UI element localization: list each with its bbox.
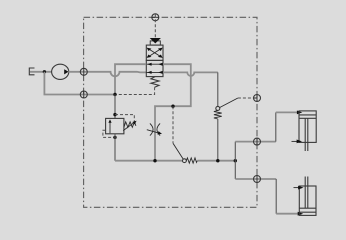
wire (down to governor joint) <box>217 72 219 106</box>
wire (valve upper-right port loop to throttle branch) <box>155 64 191 161</box>
joint J1 (governor pivot) <box>216 106 220 110</box>
relief valve RV1 pilot (dashed to spring side) <box>115 115 134 124</box>
port X1 (pressure, left boundary) <box>80 68 87 75</box>
relief valve RV1 body <box>106 118 124 133</box>
node G (governor tee on rail) <box>216 159 219 162</box>
wire (relief line down to relief valve) <box>114 95 116 119</box>
lever L1 (to bottom spring joint) <box>173 143 183 159</box>
node D (pilot loop tee) <box>113 136 116 139</box>
node H (cylinder branch tee) <box>234 159 237 162</box>
valve V1 pilot actuator (filled triangle with neck) <box>150 38 161 45</box>
valve V1 lower position box (two flow paths, arrows left) <box>146 60 163 76</box>
relief valve RV1 pilot loop (dashed, left side) <box>103 130 114 137</box>
node E (throttle branch joins bottom rail) <box>153 159 156 162</box>
node C (relief pilot tee) <box>113 113 116 116</box>
cylinder C2 (rod up) <box>299 177 316 216</box>
port X3 (pilot, top boundary) <box>152 14 159 21</box>
valve V1 return spring <box>151 77 159 88</box>
pipe (riser to cylinder C1 head) <box>275 112 277 141</box>
port X4 (pilot, right boundary) <box>254 95 261 102</box>
wire (governor to bottom rail) <box>217 119 219 161</box>
vent arrow (C2 rod side) <box>294 186 304 190</box>
wire (valve upper-left port to relief line) <box>115 64 146 94</box>
pipe (to lower cylinder) <box>235 178 276 180</box>
reservoir tank <box>29 68 34 75</box>
wire (branch up to upper cylinder port) <box>234 142 236 161</box>
wire (branch down to lower cylinder port) <box>234 161 236 179</box>
relief valve RV1 adjustable spring <box>123 121 136 131</box>
pilot line (lever to right port, dashed) <box>238 97 257 99</box>
bottom rail (left part) <box>115 160 183 162</box>
pressure pipe (pump to valve, hop over relief line) <box>69 72 147 76</box>
suction pipe <box>30 71 52 73</box>
node F (feedback pilot tap) <box>171 105 174 108</box>
pump P1 <box>52 64 69 79</box>
port X5 (upper cylinder, right boundary) <box>254 138 261 145</box>
flow arrow into C2 head <box>298 212 303 216</box>
pipe (to upper cylinder) <box>235 141 275 143</box>
node B (return tee at relief line) <box>113 93 116 96</box>
valve V1 lower-right pipe (hop over loop, to governor) <box>163 72 218 76</box>
valve V1 upper position box (crossed arrows) <box>146 45 163 60</box>
return pipe (tee down to lower left port) <box>44 72 115 95</box>
joint J2 (bottom spring eye) <box>183 159 187 163</box>
pilot drain (spring chamber to return line, dashed) <box>115 87 155 94</box>
port X6 (lower cylinder, right boundary) <box>254 176 261 183</box>
throttle TH1 (variable restrictor) <box>147 123 162 135</box>
vent arrow (C1 rod side) <box>292 140 303 144</box>
flow arrow into C1 head <box>297 111 302 115</box>
cylinder C1 (rod down) <box>299 111 316 151</box>
node A (suction/return tee) <box>43 70 46 73</box>
port X2 (return, left boundary) <box>80 91 87 98</box>
pipe (drop to cylinder C2 head) <box>275 179 277 214</box>
governor spring S1 <box>214 110 222 119</box>
wire (relief valve to bottom rail) <box>114 134 116 161</box>
feedback pilot (dashed drop) <box>172 106 174 143</box>
pilot line from top port to valve actuator <box>154 14 156 38</box>
lever L2 (pivot to pilot port) <box>220 98 238 108</box>
feedback spring S2 <box>186 158 197 163</box>
enclosure boundary (dash-dot box) <box>84 17 257 207</box>
bottom rail (right part) <box>197 160 235 162</box>
